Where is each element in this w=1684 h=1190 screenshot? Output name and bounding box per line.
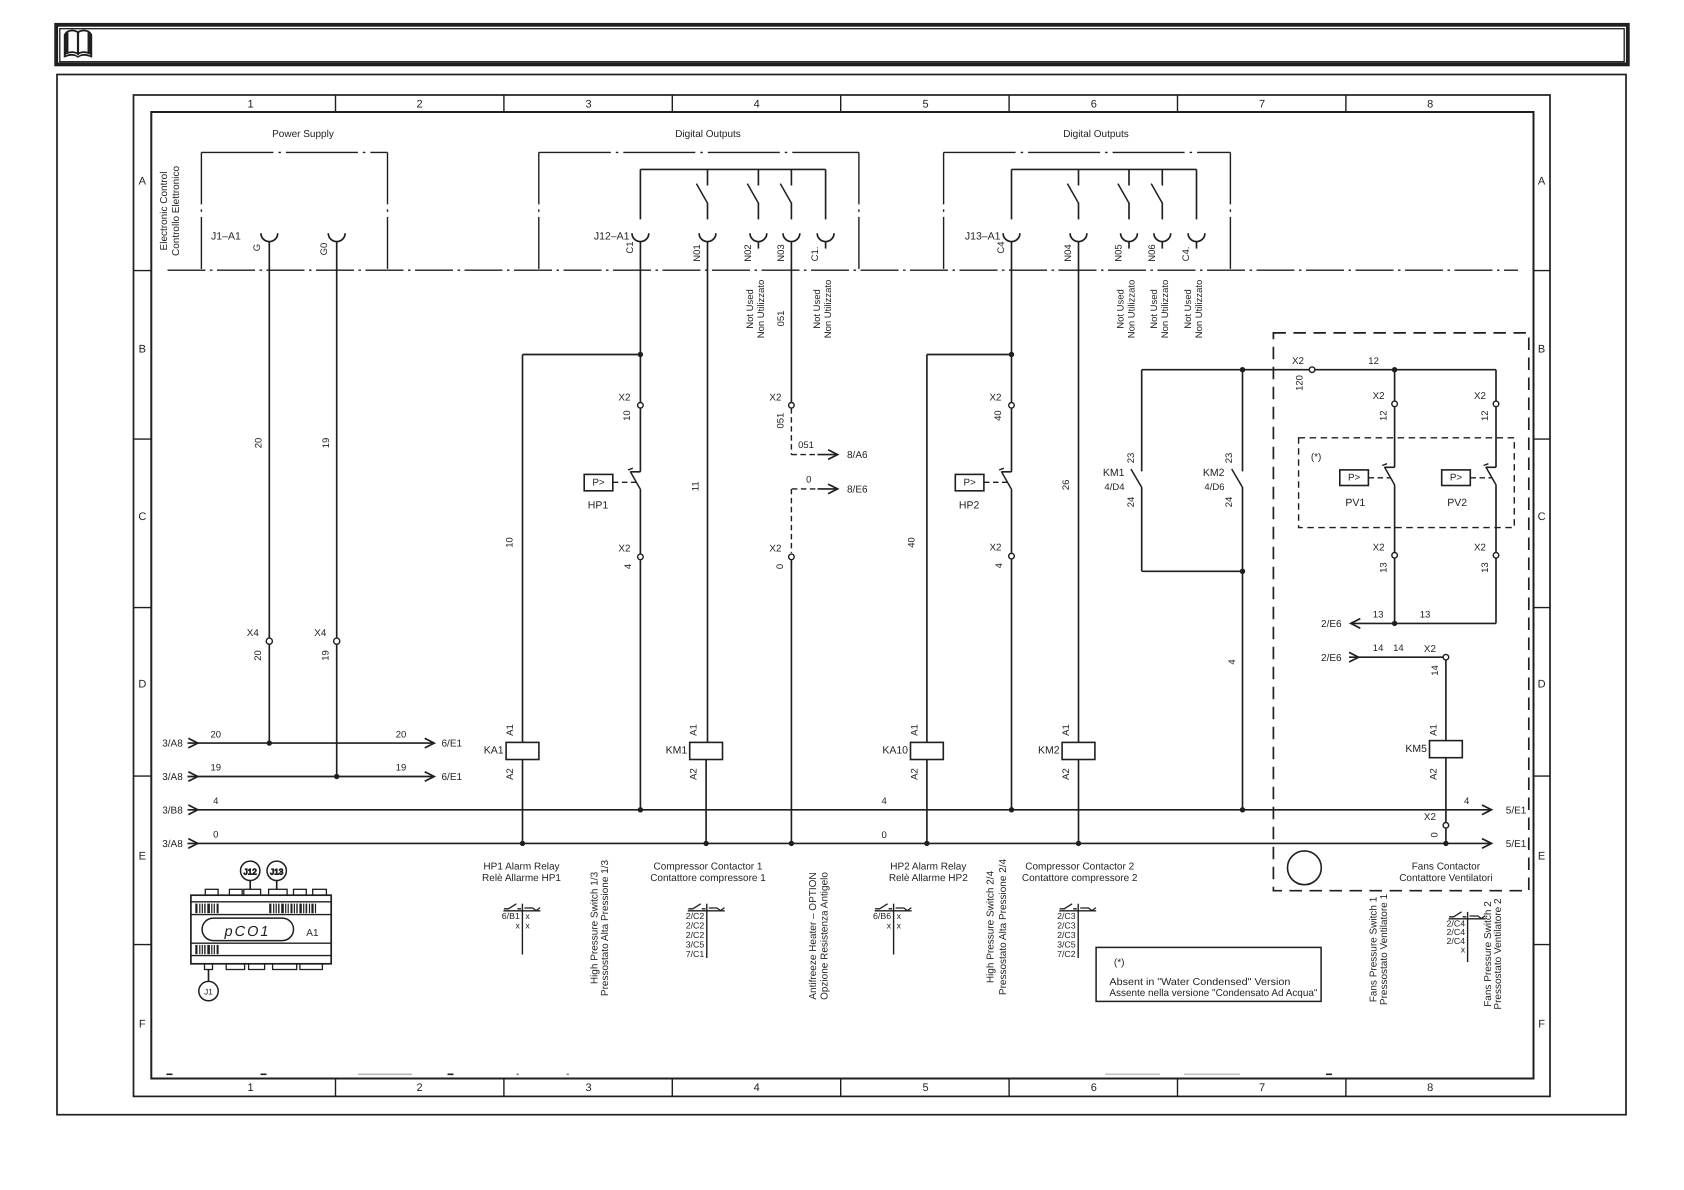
svg-text:Not Used: Not Used <box>745 289 756 329</box>
svg-text:7/C1: 7/C1 <box>686 949 705 959</box>
svg-text:8/A6: 8/A6 <box>847 450 868 461</box>
svg-text:X2: X2 <box>1424 644 1436 655</box>
svg-text:2/E6: 2/E6 <box>1321 653 1342 664</box>
svg-text:N05: N05 <box>1114 244 1125 261</box>
svg-text:X4: X4 <box>314 628 327 639</box>
svg-text:12: 12 <box>1480 410 1491 421</box>
svg-text:2/E6: 2/E6 <box>1321 619 1342 630</box>
svg-text:2/C2: 2/C2 <box>686 920 705 930</box>
svg-text:13: 13 <box>1373 609 1384 620</box>
svg-text:4: 4 <box>213 796 218 807</box>
svg-text:B: B <box>139 344 146 356</box>
svg-text:Non Utilizzato: Non Utilizzato <box>1127 280 1138 339</box>
svg-text:24: 24 <box>1126 497 1137 508</box>
svg-text:KM2: KM2 <box>1038 745 1060 757</box>
svg-text:40: 40 <box>907 537 918 548</box>
svg-text:Contattore compressore 2: Contattore compressore 2 <box>1022 873 1138 884</box>
svg-text:F: F <box>1538 1019 1545 1031</box>
svg-text:19: 19 <box>396 763 407 774</box>
svg-text:20: 20 <box>253 438 264 449</box>
svg-text:A2: A2 <box>505 768 516 780</box>
svg-text:0: 0 <box>213 830 218 841</box>
svg-text:13: 13 <box>1480 562 1491 573</box>
svg-text:23: 23 <box>1126 453 1137 464</box>
svg-text:Non Utilizzato: Non Utilizzato <box>823 280 834 339</box>
svg-text:N04: N04 <box>1063 244 1074 261</box>
svg-text:26: 26 <box>1061 480 1072 491</box>
svg-text:4: 4 <box>1464 796 1469 807</box>
svg-text:6/E1: 6/E1 <box>442 772 463 783</box>
svg-text:6/E1: 6/E1 <box>442 739 463 750</box>
svg-text:X2: X2 <box>769 392 781 403</box>
svg-text:X2: X2 <box>769 544 781 555</box>
svg-text:3/A8: 3/A8 <box>162 772 183 783</box>
svg-text:19: 19 <box>321 438 332 449</box>
svg-text:X4: X4 <box>247 628 260 639</box>
svg-text:P>: P> <box>963 477 976 488</box>
svg-text:051: 051 <box>776 311 787 327</box>
svg-text:8: 8 <box>1427 1082 1433 1094</box>
svg-text:4: 4 <box>1227 659 1238 664</box>
svg-text:Controllo Elettronico: Controllo Elettronico <box>171 166 182 256</box>
svg-text:x: x <box>1461 945 1466 955</box>
svg-text:6: 6 <box>1091 99 1097 111</box>
svg-text:J12–A1: J12–A1 <box>594 231 630 243</box>
svg-text:4: 4 <box>882 796 887 807</box>
svg-text:4/D6: 4/D6 <box>1204 482 1224 493</box>
svg-text:2/C3: 2/C3 <box>1057 911 1076 921</box>
svg-text:High Pressure Switch 1/3: High Pressure Switch 1/3 <box>589 871 600 984</box>
svg-text:B: B <box>1538 344 1545 356</box>
svg-text:N02: N02 <box>743 244 754 261</box>
svg-text:C4: C4 <box>996 241 1007 253</box>
svg-text:X2: X2 <box>990 392 1002 403</box>
svg-text:A2: A2 <box>1428 768 1439 780</box>
svg-text:C1.: C1. <box>810 247 821 262</box>
svg-text:X2: X2 <box>990 543 1002 554</box>
svg-text:14: 14 <box>1430 665 1441 676</box>
svg-text:2/C3: 2/C3 <box>1057 920 1076 930</box>
svg-text:x: x <box>515 920 520 930</box>
svg-text:X2: X2 <box>618 544 630 555</box>
svg-text:KM1: KM1 <box>666 745 688 757</box>
svg-text:x: x <box>525 911 530 921</box>
svg-text:X2: X2 <box>1474 391 1486 402</box>
svg-text:3/C5: 3/C5 <box>1057 939 1076 949</box>
svg-text:13: 13 <box>1420 609 1431 620</box>
svg-text:Fans Contactor: Fans Contactor <box>1412 862 1481 873</box>
svg-text:19: 19 <box>321 650 332 661</box>
svg-text:4: 4 <box>623 564 634 569</box>
svg-text:051: 051 <box>776 413 787 429</box>
svg-text:A1: A1 <box>1428 724 1439 736</box>
svg-text:4: 4 <box>754 1082 760 1094</box>
svg-text:J13–A1: J13–A1 <box>965 231 1001 243</box>
svg-text:P>: P> <box>1348 472 1361 483</box>
svg-text:4: 4 <box>754 99 760 111</box>
svg-text:Absent in "Water Condensed" Ve: Absent in "Water Condensed" Version <box>1109 977 1290 988</box>
svg-text:X2: X2 <box>1474 542 1486 553</box>
svg-text:KM1: KM1 <box>1103 467 1125 479</box>
svg-text:Opzione Resistenza Antigelo: Opzione Resistenza Antigelo <box>820 872 831 1000</box>
svg-text:19: 19 <box>211 763 222 774</box>
svg-text:A1: A1 <box>909 724 920 736</box>
svg-text:X2: X2 <box>1292 356 1304 367</box>
svg-text:6/B6: 6/B6 <box>873 911 891 921</box>
svg-text:8: 8 <box>1427 99 1433 111</box>
svg-text:x: x <box>525 920 530 930</box>
svg-text:4: 4 <box>994 563 1005 568</box>
svg-text:0: 0 <box>775 564 786 569</box>
svg-text:HP2: HP2 <box>959 500 980 512</box>
svg-text:D: D <box>1538 679 1546 691</box>
svg-text:C1: C1 <box>625 241 636 253</box>
svg-text:12: 12 <box>1379 410 1390 421</box>
svg-text:PV2: PV2 <box>1447 497 1467 509</box>
svg-text:2: 2 <box>417 1082 423 1094</box>
svg-text:KM2: KM2 <box>1203 467 1225 479</box>
svg-text:A2: A2 <box>909 768 920 780</box>
svg-text:3: 3 <box>585 1082 591 1094</box>
svg-text:High Pressure Switch 2/4: High Pressure Switch 2/4 <box>985 870 996 983</box>
svg-text:Not Used: Not Used <box>1116 289 1127 329</box>
svg-text:N01: N01 <box>692 244 703 261</box>
svg-text:2/C3: 2/C3 <box>1057 930 1076 940</box>
svg-text:14: 14 <box>1393 643 1404 654</box>
svg-text:20: 20 <box>396 729 407 740</box>
svg-text:Not Used: Not Used <box>812 289 823 329</box>
svg-text:3/A8: 3/A8 <box>162 739 183 750</box>
svg-text:PV1: PV1 <box>1345 497 1365 509</box>
svg-text:Contattore compressore 1: Contattore compressore 1 <box>650 873 766 884</box>
svg-text:A: A <box>139 176 147 188</box>
svg-text:A1: A1 <box>689 724 700 736</box>
svg-text:3: 3 <box>585 99 591 111</box>
svg-text:A1: A1 <box>306 928 319 939</box>
svg-text:(*): (*) <box>1311 452 1322 463</box>
svg-text:Antifreeze Heater – OPTION: Antifreeze Heater – OPTION <box>808 872 819 999</box>
svg-text:Non Utilizzato: Non Utilizzato <box>1194 280 1205 339</box>
svg-text:(*): (*) <box>1114 957 1125 968</box>
svg-text:7/C2: 7/C2 <box>1057 949 1076 959</box>
svg-text:KA1: KA1 <box>484 745 504 757</box>
svg-text:40: 40 <box>993 410 1004 421</box>
svg-text:C: C <box>1538 511 1546 523</box>
svg-text:D: D <box>138 679 146 691</box>
svg-text:6: 6 <box>1091 1082 1097 1094</box>
svg-text:120: 120 <box>1295 375 1306 391</box>
svg-text:2/C2: 2/C2 <box>686 911 705 921</box>
svg-text:23: 23 <box>1224 453 1235 464</box>
svg-text:1: 1 <box>248 1082 254 1094</box>
svg-text:3/B8: 3/B8 <box>162 805 183 816</box>
svg-text:2: 2 <box>417 99 423 111</box>
svg-text:1: 1 <box>248 99 254 111</box>
svg-text:G0: G0 <box>319 243 330 256</box>
svg-text:A2: A2 <box>1061 768 1072 780</box>
svg-text:6/B1: 6/B1 <box>502 911 520 921</box>
svg-text:x: x <box>897 920 902 930</box>
svg-text:Digital Outputs: Digital Outputs <box>1063 129 1129 140</box>
svg-text:Not Used: Not Used <box>1149 289 1160 329</box>
svg-text:Electronic Control: Electronic Control <box>159 172 170 251</box>
svg-text:E: E <box>1538 851 1545 863</box>
svg-text:N03: N03 <box>776 244 787 261</box>
svg-text:Digital Outputs: Digital Outputs <box>675 129 741 140</box>
svg-text:7: 7 <box>1259 99 1265 111</box>
svg-text:X2: X2 <box>1373 391 1385 402</box>
svg-text:Pressostato Ventilatore 1: Pressostato Ventilatore 1 <box>1379 893 1390 1005</box>
svg-text:A: A <box>1538 176 1546 188</box>
svg-text:KA10: KA10 <box>882 745 908 757</box>
svg-text:Relè Allarme HP2: Relè Allarme HP2 <box>889 873 968 884</box>
svg-text:051: 051 <box>798 440 814 451</box>
svg-text:F: F <box>139 1019 146 1031</box>
svg-text:0: 0 <box>806 475 811 486</box>
svg-text:X2: X2 <box>1373 542 1385 553</box>
svg-text:Pressostato Alta Pressione 2/4: Pressostato Alta Pressione 2/4 <box>998 858 1009 995</box>
svg-text:Power Supply: Power Supply <box>272 129 334 140</box>
svg-text:Pressostato Ventilatore 2: Pressostato Ventilatore 2 <box>1493 898 1504 1010</box>
svg-text:3/A8: 3/A8 <box>162 839 183 850</box>
svg-text:P>: P> <box>592 477 605 488</box>
svg-text:13: 13 <box>1379 562 1390 573</box>
svg-text:C: C <box>138 511 146 523</box>
svg-text:P>: P> <box>1450 472 1463 483</box>
svg-text:5/E1: 5/E1 <box>1506 806 1527 817</box>
svg-text:Relè Allarme HP1: Relè Allarme HP1 <box>482 873 561 884</box>
svg-text:x: x <box>887 920 892 930</box>
svg-text:G: G <box>252 244 263 251</box>
svg-text:0: 0 <box>1429 832 1440 837</box>
svg-text:A2: A2 <box>689 768 700 780</box>
svg-text:Assente nella versione "Conden: Assente nella versione "Condensato Ad Ac… <box>1109 988 1317 999</box>
svg-text:x: x <box>897 911 902 921</box>
svg-text:14: 14 <box>1373 643 1384 654</box>
svg-text:J1: J1 <box>204 988 213 997</box>
svg-text:C4.: C4. <box>1181 247 1192 262</box>
svg-text:Pressostato Alta Pressione 1/3: Pressostato Alta Pressione 1/3 <box>600 859 611 996</box>
svg-text:0: 0 <box>882 830 887 841</box>
svg-text:10: 10 <box>504 537 515 548</box>
svg-text:4/D4: 4/D4 <box>1104 482 1124 493</box>
svg-text:11: 11 <box>690 481 701 491</box>
svg-text:3/C5: 3/C5 <box>686 939 705 949</box>
svg-text:E: E <box>139 851 146 863</box>
svg-text:J13: J13 <box>270 867 284 876</box>
svg-text:8/E6: 8/E6 <box>847 484 868 495</box>
svg-text:10: 10 <box>622 410 633 421</box>
svg-text:24: 24 <box>1224 497 1235 508</box>
svg-text:Contattore Ventilatori: Contattore Ventilatori <box>1399 873 1492 884</box>
svg-text:12: 12 <box>1368 356 1379 367</box>
svg-text:Non Utilizzato: Non Utilizzato <box>1160 280 1171 339</box>
svg-text:A1: A1 <box>505 724 516 736</box>
svg-text:HP1: HP1 <box>588 500 609 512</box>
svg-text:Compressor Contactor 2: Compressor Contactor 2 <box>1025 862 1134 873</box>
svg-text:pCO1: pCO1 <box>224 924 271 940</box>
svg-text:2/C2: 2/C2 <box>686 930 705 940</box>
svg-text:7: 7 <box>1259 1082 1265 1094</box>
svg-text:Compressor Contactor 1: Compressor Contactor 1 <box>654 862 763 873</box>
svg-text:20: 20 <box>211 729 222 740</box>
svg-text:20: 20 <box>253 650 264 661</box>
svg-text:KM5: KM5 <box>1405 743 1427 755</box>
svg-text:X2: X2 <box>1424 812 1436 823</box>
svg-text:5: 5 <box>923 1082 929 1094</box>
svg-text:Non Utilizzato: Non Utilizzato <box>756 280 767 339</box>
svg-text:J12: J12 <box>244 867 258 876</box>
svg-text:HP1 Alarm Relay: HP1 Alarm Relay <box>483 862 559 873</box>
svg-text:5: 5 <box>923 99 929 111</box>
svg-text:A1: A1 <box>1061 724 1072 736</box>
svg-text:X2: X2 <box>618 392 630 403</box>
svg-text:5/E1: 5/E1 <box>1506 839 1527 850</box>
svg-text:HP2 Alarm Relay: HP2 Alarm Relay <box>890 862 966 873</box>
svg-text:N06: N06 <box>1147 244 1158 261</box>
svg-text:J1–A1: J1–A1 <box>211 231 241 243</box>
svg-text:Not Used: Not Used <box>1183 289 1194 329</box>
